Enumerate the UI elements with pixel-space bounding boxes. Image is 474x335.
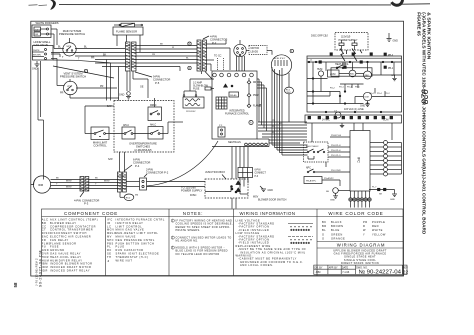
run capacitor RC1 xyxy=(285,73,294,122)
svg-text:5M: 5M xyxy=(135,195,138,197)
scan mark: bold swirl xyxy=(392,0,403,5)
drops from bus xyxy=(312,123,392,142)
right section wires xyxy=(307,53,402,113)
wires into P-5 from left xyxy=(51,53,126,101)
fuse xyxy=(205,87,214,90)
honeywell gas valve box xyxy=(32,46,53,61)
HUM coil xyxy=(317,69,324,76)
curve wire to junction xyxy=(147,141,218,186)
label 2-PIN CONNECTOR P-2 xyxy=(144,168,169,178)
svg-text:PR: PR xyxy=(91,57,95,60)
svg-text:INDUCED DRAFT MOTOR: INDUCED DRAFT MOTOR xyxy=(50,265,91,269)
svg-text:GND: GND xyxy=(42,248,49,252)
wire plug to motor xyxy=(246,51,272,55)
IFC2 control board xyxy=(350,131,370,192)
svg-text:REV: REV xyxy=(403,266,408,269)
svg-text:P-4: P-4 xyxy=(135,164,140,168)
svg-text:IDR: IDR xyxy=(42,269,48,273)
svg-text:AUX LIMIT CONTROL (TEMP): AUX LIMIT CONTROL (TEMP) xyxy=(50,218,98,222)
svg-text:NPC: NPC xyxy=(107,238,114,242)
low voltage bus box xyxy=(305,111,402,128)
wiring information line samples xyxy=(288,224,313,240)
svg-text:GND: GND xyxy=(32,68,38,71)
svg-text:NOTES:: NOTES: xyxy=(183,211,203,216)
connector P-5 ladder xyxy=(126,42,137,71)
connector P-4 xyxy=(118,172,127,192)
wiring diagram description xyxy=(333,248,387,265)
svg-text:ACM: ACM xyxy=(330,73,335,76)
svg-text:GND: GND xyxy=(393,40,399,43)
svg-text:LC: LC xyxy=(107,224,111,228)
svg-text:R: R xyxy=(363,224,365,228)
svg-text:35M: 35M xyxy=(286,92,290,94)
svg-text:INDUCED DRAFT RELAY: INDUCED DRAFT RELAY xyxy=(50,269,90,273)
wires P2 to IFC top xyxy=(202,40,231,80)
IFC P2 plug xyxy=(218,125,225,137)
svg-text:IDM: IDM xyxy=(38,183,44,187)
sheet border frame xyxy=(31,21,404,276)
header underline notes xyxy=(169,216,234,218)
svg-text:COMPONENT CODE: COMPONENT CODE xyxy=(64,211,118,216)
svg-text:BROWN: BROWN xyxy=(33,55,41,57)
svg-text:GE: GE xyxy=(140,86,144,89)
svg-text:IBM: IBM xyxy=(365,75,369,77)
wire S/W label xyxy=(107,105,113,161)
svg-text:TO CC: TO CC xyxy=(214,55,222,58)
GE mark xyxy=(140,86,144,89)
svg-text:1: 1 xyxy=(172,219,174,223)
svg-text:PRIATE SPEEDS.: PRIATE SPEEDS. xyxy=(176,228,201,232)
run capacitor RC2 xyxy=(120,192,138,201)
svg-text:RED: RED xyxy=(372,224,379,228)
IFC2 bottom terminals xyxy=(349,191,371,201)
svg-text:RUN CAPACITOR: RUN CAPACITOR xyxy=(116,248,144,252)
svg-text:6-PIN: 6-PIN xyxy=(255,170,261,172)
handwritten mark 928 xyxy=(420,89,430,104)
ground right mid xyxy=(392,75,397,81)
label blower door switch xyxy=(253,196,287,202)
svg-text:(-)GRA MODELS WITH UTEC 1028-9: (-)GRA MODELS WITH UTEC 1028-927 OR JOHN… xyxy=(421,12,426,234)
junction box dashed xyxy=(205,179,248,198)
ACM box xyxy=(328,70,340,77)
heat-cool relay xyxy=(335,63,349,69)
AHLC1 box xyxy=(122,124,135,139)
svg-text:MAIN GAS VALVE: MAIN GAS VALVE xyxy=(116,228,145,232)
svg-text:FLAME SENSOR: FLAME SENSOR xyxy=(50,241,77,245)
spark electrode circle xyxy=(326,188,350,202)
svg-text:POWER SUPPLY: POWER SUPPLY xyxy=(181,189,203,193)
wire flame sensor down xyxy=(117,35,140,52)
svg-text:BROWN: BROWN xyxy=(331,224,343,228)
svg-text:CONNECTOR P-2: CONNECTOR P-2 xyxy=(146,171,169,175)
wire: ignition box to P-4 xyxy=(120,152,125,172)
MPS pressure switch xyxy=(63,38,76,56)
note marker 3 xyxy=(188,42,191,46)
svg-text:BK: BK xyxy=(103,53,107,56)
svg-text:FAN RELAY: FAN RELAY xyxy=(50,238,69,242)
field wiring bolts xyxy=(340,49,362,62)
wire plug drops to IFC xyxy=(237,56,245,71)
label MAIN SYSTEM PRESSURE SWITCH xyxy=(59,29,85,36)
IFC right bundle xyxy=(258,120,307,143)
labels DISC GRP CBJ xyxy=(311,35,328,38)
title text: FIGURE 65 xyxy=(416,12,431,234)
label HONEYWELL GAS VALVE xyxy=(34,40,51,47)
svg-text:PR: PR xyxy=(152,54,155,56)
svg-text:LEADS: LEADS xyxy=(251,50,259,53)
svg-text:JUNCTION BOX: JUNCTION BOX xyxy=(205,170,225,174)
svg-text:IGNITION RELAY: IGNITION RELAY xyxy=(116,221,144,225)
svg-text:(2-MAXIMUM): (2-MAXIMUM) xyxy=(134,148,151,152)
wires limit chain xyxy=(85,98,183,134)
EAC outlet xyxy=(349,70,356,77)
svg-text:JDM: JDM xyxy=(316,271,321,274)
svg-text:CONTROL TRANSFORMER: CONTROL TRANSFORMER xyxy=(50,228,93,232)
scan mark: top rule long xyxy=(59,4,391,6)
svg-text:AHLC MHLC: AHLC MHLC xyxy=(306,145,319,148)
flame sensor box xyxy=(113,27,143,35)
svg-text:BR/W: BR/W xyxy=(66,181,71,183)
svg-text:HUMIDIFIER RELAY: HUMIDIFIER RELAY xyxy=(50,258,83,262)
AHLC dashed box right xyxy=(304,142,329,162)
wire: note 2 diagonal xyxy=(53,66,114,78)
label JUNCTION BOX xyxy=(205,170,226,179)
wire VPS leads xyxy=(57,59,119,99)
header underline wire color code xyxy=(317,216,403,218)
vertical wire from valve area down xyxy=(38,61,44,180)
IBM motor circle xyxy=(271,55,291,75)
title strip box xyxy=(314,265,407,274)
svg-text:PS-6 PL-6: PS-6 PL-6 xyxy=(331,150,341,152)
svg-text:PS-B PL-B: PS-B PL-B xyxy=(331,135,342,137)
IFC status LEDs xyxy=(247,78,261,108)
svg-text:MGV: MGV xyxy=(107,228,114,232)
svg-text:INTEGRATD FURNACE CNTRL: INTEGRATD FURNACE CNTRL xyxy=(116,218,165,222)
SE pads wire xyxy=(369,186,397,201)
svg-text:928: 928 xyxy=(420,89,430,104)
svg-text:BR: BR xyxy=(42,221,47,225)
title strip text xyxy=(315,266,409,274)
wire transformer top xyxy=(184,79,214,95)
svg-text:DISCONNECT SWITCH: DISCONNECT SWITCH xyxy=(50,231,87,235)
svg-text:BLOWER RELAY: BLOWER RELAY xyxy=(50,221,77,225)
svg-text:7-1-96: 7-1-96 xyxy=(342,271,350,274)
svg-text:THERMOSTAT (H-C): THERMOSTAT (H-C) xyxy=(116,255,149,259)
svg-text:W: W xyxy=(272,126,274,128)
MLC2 box xyxy=(148,105,162,121)
svg-text:4-PIN: 4-PIN xyxy=(74,199,81,203)
svg-text:HEAT-COOL RELAY: HEAT-COOL RELAY xyxy=(50,255,82,259)
svg-text:✱✱✱✱✱✱✱✱: ✱✱✱✱✱✱✱✱ xyxy=(290,241,311,245)
svg-text:AHLC: AHLC xyxy=(123,124,129,127)
svg-text:NPC: NPC xyxy=(306,167,311,169)
fuse elements in power supply xyxy=(339,40,357,50)
label 4-PIN CONNECTOR P-3 xyxy=(74,192,99,206)
svg-text:BLACK: BLACK xyxy=(331,220,342,224)
junction internal wires xyxy=(205,183,248,194)
svg-text:WHITE RODGERS: WHITE RODGERS xyxy=(36,21,59,25)
svg-text:COMPRESSOR CONTACTOR: COMPRESSOR CONTACTOR xyxy=(50,224,96,228)
svg-text:M1 AND/OR M2.: M1 AND/OR M2. xyxy=(176,239,199,243)
svg-text:WIRING DIAGRAM: WIRING DIAGRAM xyxy=(337,243,385,248)
wire MPS right BL xyxy=(58,46,125,49)
PX labels xyxy=(310,60,396,95)
svg-text:115V/24V: 115V/24V xyxy=(186,111,196,113)
note marker 2 xyxy=(188,66,191,70)
svg-text:FUSE: FUSE xyxy=(50,245,59,249)
svg-text:FLAME SENSOR: FLAME SENSOR xyxy=(116,29,137,33)
wire: valve T diagonal xyxy=(53,58,111,63)
wiring diagram box top xyxy=(317,241,403,243)
label 115 VAC LINE xyxy=(344,108,364,111)
svg-text:ORANGE: ORANGE xyxy=(331,237,345,241)
svg-text:WIRE COLOR CODE: WIRE COLOR CODE xyxy=(328,211,383,216)
svg-text:NEG PRESSURE CNTRL: NEG PRESSURE CNTRL xyxy=(116,238,155,242)
wire stubs below junction box xyxy=(232,198,236,209)
svg-text:PS-8 PL-8: PS-8 PL-8 xyxy=(331,145,341,147)
svg-text:36E93: 36E93 xyxy=(35,30,42,32)
svg-text:YELLOW: YELLOW xyxy=(372,232,386,236)
IFC top terminals xyxy=(213,73,254,87)
IBM motor right xyxy=(364,71,372,79)
svg-text:SPARK IGNIT ELECTRODE: SPARK IGNIT ELECTRODE xyxy=(116,252,160,256)
svg-text:DIRECT SPARK IGNITION: DIRECT SPARK IGNITION xyxy=(341,261,379,265)
svg-text:PL: PL xyxy=(107,245,111,249)
header underline wiring information xyxy=(234,216,318,218)
svg-text:58: 58 xyxy=(13,282,18,287)
svg-text:IR: IR xyxy=(107,221,111,225)
label motor leads dashed xyxy=(249,46,267,55)
svg-text:COM: COM xyxy=(383,120,388,122)
IFC relay grid xyxy=(216,97,227,109)
wires left of IFC2 xyxy=(315,135,350,186)
page number 58 xyxy=(13,282,18,287)
svg-text:PB-1: PB-1 xyxy=(388,68,394,70)
gas valve W-R box xyxy=(32,25,51,38)
svg-text:WIRING INFORMATION: WIRING INFORMATION xyxy=(240,211,296,216)
svg-text:BLOWER DOOR SWITCH: BLOWER DOOR SWITCH xyxy=(258,199,287,202)
section frame xyxy=(307,56,402,112)
svg-text:PUSH BUTTON SWITCH: PUSH BUTTON SWITCH xyxy=(116,241,155,245)
AHLC2 box xyxy=(148,123,163,139)
IFC main box xyxy=(212,71,269,139)
svg-text:PB-2: PB-2 xyxy=(388,55,394,57)
scan mark: top rule left xyxy=(29,4,48,7)
fuse label xyxy=(193,82,209,91)
svg-text:DR. BY: DR. BY xyxy=(315,266,323,269)
svg-text:ELECTRIC AIR CLEANER: ELECTRIC AIR CLEANER xyxy=(50,235,91,239)
relay inner box xyxy=(331,68,372,76)
svg-text:GREEN: GREEN xyxy=(331,232,343,236)
motor lead drops xyxy=(272,67,282,155)
svg-text:115 VAC (1) LINE: 115 VAC (1) LINE xyxy=(344,108,364,111)
component code column divider xyxy=(105,217,107,276)
NPC switch xyxy=(306,167,315,173)
svg-text:IDM: IDM xyxy=(365,97,369,99)
legend outer box xyxy=(42,209,404,276)
svg-text:DISC: DISC xyxy=(190,193,196,197)
svg-text:MRLC: MRLC xyxy=(150,105,157,107)
label 4-PIN CONNECTOR P-2 xyxy=(203,35,227,45)
svg-text:B/W: B/W xyxy=(107,105,112,108)
svg-text:GND: GND xyxy=(330,200,335,202)
svg-text:CC: CC xyxy=(42,224,47,228)
svg-text:3: 3 xyxy=(172,246,174,250)
round motor plug xyxy=(234,40,246,57)
wire: IFC right edge drops xyxy=(257,79,267,131)
svg-text:EAC: EAC xyxy=(42,235,49,239)
label VENT SYSTEM PRESSURE SWITCH xyxy=(60,72,86,79)
svg-text:✱✱✱✱✱✱✱✱: ✱✱✱✱✱✱✱✱ xyxy=(290,228,311,232)
svg-text:TH: TH xyxy=(107,255,112,259)
svg-text:BL: BL xyxy=(322,228,326,232)
svg-text:FUSE: FUSE xyxy=(193,87,200,90)
label overtemperature switches xyxy=(129,142,157,152)
svg-text:EAC: EAC xyxy=(350,73,355,76)
flame sensor element xyxy=(114,23,143,27)
wires P-3 to P-4 xyxy=(89,178,118,189)
svg-text:WIRE NUT: WIRE NUT xyxy=(116,258,133,262)
wires bundle P5 to P2 xyxy=(136,44,197,71)
connector P-3 xyxy=(80,177,89,192)
IFC2 right pins xyxy=(370,141,402,177)
svg-text:BK BL R W Y: BK BL R W Y xyxy=(274,58,286,60)
svg-text:SE: SE xyxy=(107,252,112,256)
svg-text:BLUE: BLUE xyxy=(331,228,340,232)
nested corner wires to right xyxy=(272,145,308,155)
svg-text:MOTOR: MOTOR xyxy=(251,48,260,50)
svg-text:W: W xyxy=(363,228,366,232)
VPS pressure switch xyxy=(64,79,78,95)
connector P-2 top bar xyxy=(197,40,207,71)
IFC neutrals strip xyxy=(212,139,269,147)
svg-text:GAS VALVE RELAY: GAS VALVE RELAY xyxy=(50,252,81,256)
svg-text:PS-9 SVR: PS-9 SVR xyxy=(331,170,341,172)
svg-text:PURPLE: PURPLE xyxy=(372,220,385,224)
svg-text:GND: GND xyxy=(390,199,395,201)
PB-1 terminal xyxy=(384,66,394,70)
svg-text:▲: ▲ xyxy=(107,259,110,262)
component code rows xyxy=(42,218,165,273)
control transformer CT xyxy=(183,95,204,113)
left vertical part number 90-24027-04 xyxy=(34,258,38,286)
svg-text:22: 22 xyxy=(403,270,409,276)
svg-text:BR/W: BR/W xyxy=(104,181,109,183)
svg-text:CONNECT: CONNECT xyxy=(255,173,267,175)
svg-text:Y: Y xyxy=(363,232,365,236)
svg-text:ALC: ALC xyxy=(42,218,49,222)
svg-text:PBS: PBS xyxy=(107,241,114,245)
svg-text:PLUG: PLUG xyxy=(116,245,125,249)
svg-text:PR: PR xyxy=(100,85,104,88)
label to power supply xyxy=(181,185,203,197)
circled A xyxy=(249,120,253,124)
IDM motor right xyxy=(363,92,371,100)
header underline component code xyxy=(42,216,170,218)
PB-2 terminal xyxy=(384,53,394,57)
svg-text:BK: BK xyxy=(322,220,326,224)
svg-text:GVR: GVR xyxy=(42,252,49,256)
svg-text:PRESSURE SWITCH: PRESSURE SWITCH xyxy=(60,75,86,79)
svg-text:CT: CT xyxy=(42,228,47,232)
IDM wires xyxy=(50,178,81,189)
svg-text:IFC: IFC xyxy=(107,218,113,222)
2-pin connector P-2 xyxy=(140,178,147,190)
svg-text:BR/W: BR/W xyxy=(66,187,71,189)
wires below P-5 xyxy=(127,71,148,98)
legend divider: wiring-info/color-code xyxy=(316,209,318,276)
svg-text:№ 90-24227-04: № 90-24227-04 xyxy=(359,269,402,275)
svg-text:DR: DR xyxy=(253,82,257,84)
svg-text:MAIN VALVE: MAIN VALVE xyxy=(116,235,136,239)
ground at gas valve xyxy=(32,61,40,71)
svg-text:DISC: DISC xyxy=(42,231,50,235)
IFC bottom drops xyxy=(231,146,248,193)
svg-text:O: O xyxy=(322,237,325,241)
svg-text:G: G xyxy=(322,232,325,236)
svg-text:HUM: HUM xyxy=(317,69,322,71)
6-pin grid connector mid xyxy=(238,168,266,178)
wires into junction xyxy=(126,182,205,187)
main limit control box xyxy=(91,127,109,148)
legend divider: notes/wiring-info xyxy=(233,209,235,276)
gas valve W-R: label xyxy=(36,21,59,25)
svg-text:PRESSURE SWITCH: PRESSURE SWITCH xyxy=(59,32,85,36)
legend divider: component/notes xyxy=(168,209,170,276)
svg-text:RC2: RC2 xyxy=(126,197,131,199)
svg-text:MPS: MPS xyxy=(67,46,72,48)
svg-text:FURNACE CONTROL: FURNACE CONTROL xyxy=(225,113,250,116)
svg-text:NEUTRALS: NEUTRALS xyxy=(228,141,241,144)
svg-text:GND: GND xyxy=(119,94,125,97)
IFC label xyxy=(225,110,250,116)
svg-text:DATE: DATE xyxy=(342,266,349,269)
wire: thermostat drops xyxy=(351,201,370,207)
svg-text:2: 2 xyxy=(172,236,174,240)
svg-text:BR: BR xyxy=(322,224,327,228)
svg-text:P-5: P-5 xyxy=(155,81,160,85)
svg-text:WHITE: WHITE xyxy=(33,50,40,52)
power supply dashed box xyxy=(335,33,368,51)
wiring information text xyxy=(236,218,307,267)
notes text xyxy=(171,219,233,256)
scan mark: top rule right xyxy=(402,3,430,5)
svg-text:S/W: S/W xyxy=(108,158,113,161)
svg-text:CONTROL: CONTROL xyxy=(93,144,107,148)
label 6-PIN CONNECTOR P-4 xyxy=(124,158,150,172)
ground under P-5 xyxy=(119,92,131,99)
wire color code text xyxy=(322,220,386,241)
svg-text:FU: FU xyxy=(42,245,47,249)
label 9-PIN CONNECTOR P-5 xyxy=(135,72,170,85)
svg-text:GND: GND xyxy=(268,189,274,192)
svg-text:IBM: IBM xyxy=(42,262,48,266)
svg-text:HUM: HUM xyxy=(42,258,49,262)
svg-text:PB-A NPC: PB-A NPC xyxy=(306,179,317,182)
PB box xyxy=(304,177,322,184)
svg-text:MV: MV xyxy=(107,235,112,239)
svg-text:GROUND: GROUND xyxy=(50,248,65,252)
svg-text:LIMIT CONTROL: LIMIT CONTROL xyxy=(116,224,143,228)
wiring diagram header underline xyxy=(317,247,403,249)
svg-text:PS-5 PL-5: PS-5 PL-5 xyxy=(331,155,341,157)
ground mid xyxy=(260,186,273,192)
svg-text:IDM: IDM xyxy=(42,265,48,269)
svg-text:AND LOCAL CODES.: AND LOCAL CODES. xyxy=(240,263,274,267)
svg-text:APP. BY: APP. BY xyxy=(329,266,338,269)
svg-text:PS-A NPC: PS-A NPC xyxy=(324,177,334,180)
svg-text:AHLC: AHLC xyxy=(150,123,156,126)
